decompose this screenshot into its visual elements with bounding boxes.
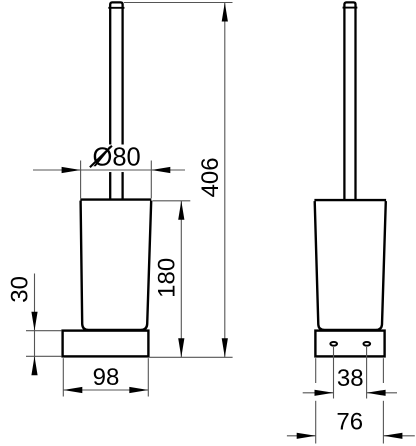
svg-text:38: 38: [337, 365, 364, 392]
dim 38: extension lines: [303, 347, 397, 399]
dim 98: extension lines: [63, 358, 148, 396]
dim O80: dimension line: [33, 169, 185, 171]
dim 76: dimension line: [287, 435, 316, 437]
side view: left mounting slot: [330, 342, 337, 346]
dim 38: arrows: [315, 390, 334, 396]
dim 30: extension lines: [26, 274, 61, 371]
dim 30: dimension line: [34, 274, 36, 371]
svg-text:98: 98: [93, 364, 120, 391]
dim 30: arrows: [31, 312, 37, 331]
dim 406: extension lines: [124, 3, 233, 358]
side view: tumbler cup: [314, 200, 386, 330]
svg-text:406: 406: [197, 157, 224, 197]
front view: brush handle rod: [109, 2, 123, 198]
svg-text:76: 76: [336, 408, 363, 435]
dim 76: arrows: [297, 433, 316, 439]
dim O80: arrows: [62, 167, 81, 173]
side view: wall-mount base plate: [315, 331, 384, 357]
svg-text:30: 30: [7, 276, 34, 303]
dim 406: dimension line: [224, 3, 226, 358]
side view: right mounting slot: [363, 342, 370, 346]
dim 180: arrows: [178, 201, 184, 220]
front view: tumbler cup: [80, 200, 151, 330]
dim O80: extension lines: [33, 161, 185, 199]
dim 76: extension lines: [287, 358, 415, 443]
dim 180: dimension line: [180, 201, 182, 357]
dim 38: dimension line: [303, 392, 334, 394]
dim 98: dimension line: [63, 389, 148, 391]
dim 98: arrows: [63, 387, 82, 393]
side view: brush handle rod: [344, 2, 357, 198]
dim 180: extension line: [153, 201, 191, 357]
svg-text:180: 180: [153, 258, 180, 298]
dim O80: diameter slash extension: [90, 146, 112, 168]
dim 406: arrows: [222, 3, 228, 22]
front view: wall-mount base plate: [63, 331, 149, 357]
